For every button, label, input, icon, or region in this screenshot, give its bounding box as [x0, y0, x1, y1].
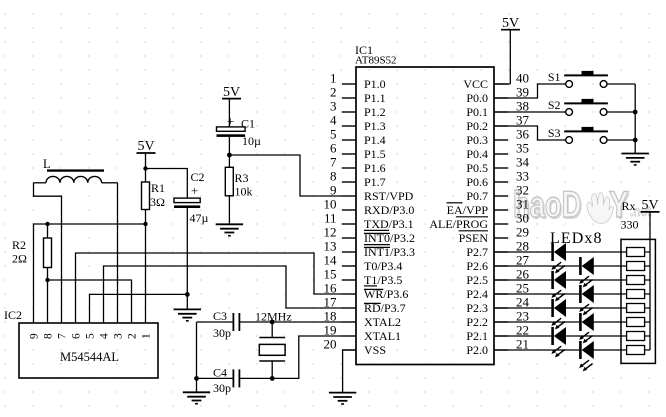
svg-text:ALE/PROG: ALE/PROG	[429, 217, 488, 231]
IC2 M54544AL body	[4, 308, 158, 378]
svg-text:P1.5: P1.5	[364, 147, 386, 161]
wire P0.0 pin39 to S1	[494, 84, 566, 98]
svg-text:T1/P3.5: T1/P3.5	[364, 273, 402, 287]
svg-text:18: 18	[324, 309, 337, 324]
svg-text:C2: C2	[191, 170, 205, 184]
svg-text:12: 12	[324, 225, 337, 240]
IC1 pin 21 (P2.0)	[466, 337, 529, 358]
svg-text:3: 3	[330, 99, 337, 114]
svg-text:+: +	[227, 114, 234, 129]
svg-text:5V: 5V	[502, 16, 519, 31]
IC1 pin 6 (P1.5)	[330, 141, 386, 162]
IC1 pin 7 (P1.6)	[330, 155, 386, 176]
svg-text:M54544AL: M54544AL	[60, 350, 119, 364]
svg-text:3: 3	[112, 333, 124, 339]
svg-text:+: +	[191, 183, 198, 198]
svg-text:1: 1	[330, 71, 337, 86]
svg-text:25: 25	[516, 281, 529, 296]
resistor Rx element 4	[627, 290, 650, 299]
svg-text:P0.4: P0.4	[466, 147, 488, 161]
IC1 pin 11 (TXD/P3.1)	[324, 211, 414, 232]
wire LED D2 to resistor network	[594, 265, 627, 267]
svg-text:VSS: VSS	[364, 343, 386, 357]
IC1 pin 23 (P2.2)	[466, 309, 529, 330]
svg-text:P1.1: P1.1	[364, 91, 386, 105]
IC1 pin 4 (P1.3)	[330, 113, 386, 134]
wire XTAL2 pin18 row	[239, 321, 342, 323]
svg-text:5V: 5V	[137, 139, 154, 154]
IC1 pin 24 (P2.3)	[466, 295, 529, 316]
svg-text:P2.7: P2.7	[466, 245, 488, 259]
svg-text:AT89S52: AT89S52	[355, 55, 397, 67]
svg-text:RXD/P3.0: RXD/P3.0	[364, 203, 414, 217]
svg-text:22: 22	[516, 323, 529, 338]
svg-text:1: 1	[140, 333, 152, 339]
LED D5	[551, 299, 566, 329]
pin label overlines (EA, PROG, PSEN)	[447, 203, 489, 231]
wire S2 to ground bus	[607, 111, 635, 113]
wire 5V to VCC pin 40	[494, 30, 510, 84]
svg-text:LEDx8: LEDx8	[550, 230, 603, 247]
svg-text:31: 31	[516, 197, 529, 212]
svg-text:R2: R2	[12, 238, 26, 252]
resistor R3 10k	[225, 155, 252, 224]
wire P2.6 pin27 to LED	[494, 265, 579, 267]
resistor Rx element 7	[627, 332, 650, 341]
IC1 pin 19 (XTAL1)	[324, 323, 402, 344]
svg-text:VCC: VCC	[463, 77, 488, 91]
svg-text:9: 9	[330, 183, 337, 198]
IC1 pin 31 (EA/VPP)	[447, 197, 529, 218]
wire LED D7 to resistor network	[566, 335, 627, 337]
svg-text:30p: 30p	[213, 381, 231, 395]
ground (C2 / IC2 pin5)	[174, 309, 201, 320]
wire P2.4 pin25 to LED	[494, 293, 579, 295]
wire LED D3 to resistor network	[566, 279, 627, 281]
svg-text:28: 28	[516, 239, 529, 254]
svg-text:L: L	[43, 157, 51, 171]
capacitor C3 30p	[197, 309, 240, 340]
svg-text:15: 15	[324, 267, 337, 282]
svg-text:Rx: Rx	[622, 199, 636, 213]
svg-text:7: 7	[330, 155, 337, 170]
svg-text:4: 4	[330, 113, 337, 128]
wire IC2 pin 5 to ground node	[90, 294, 188, 323]
svg-text:8: 8	[42, 333, 54, 339]
svg-text:S3: S3	[548, 126, 561, 140]
IC1 pin 28 (P2.7)	[466, 239, 529, 260]
svg-text:P2.6: P2.6	[466, 259, 488, 273]
svg-text:P2.3: P2.3	[466, 301, 488, 315]
IC1 pin 9 (RST/VPD)	[330, 183, 414, 204]
svg-text:C3: C3	[213, 309, 227, 323]
svg-text:34: 34	[516, 155, 530, 170]
resistor R1 3ohm	[142, 181, 166, 224]
svg-text:5: 5	[330, 127, 337, 142]
IC1 pin 26 (P2.5)	[466, 267, 529, 288]
microcontroller IC1 AT89S52 body	[355, 43, 494, 365]
svg-text:27: 27	[516, 253, 530, 268]
svg-text:XTAL2: XTAL2	[364, 315, 401, 329]
wire LED D5 to resistor network	[566, 307, 627, 309]
svg-text:T0/P3.4: T0/P3.4	[364, 259, 402, 273]
svg-text:5V: 5V	[641, 198, 658, 213]
IC1 pin 2 (P1.1)	[330, 85, 386, 106]
IC1 pin 37 (P0.2)	[466, 113, 529, 134]
wire S3 to ground bus	[607, 139, 635, 141]
IC2 pin numbers (rotated)	[28, 333, 152, 339]
wire LED D4 to resistor network	[594, 293, 627, 295]
ground (VSS)	[329, 393, 356, 404]
node C2/gnd/IC2-pin5	[185, 292, 190, 297]
inductor L	[34, 157, 118, 183]
wire C3 left down to C4	[196, 322, 198, 378]
svg-text:8: 8	[330, 169, 337, 184]
IC1 pin 16 (WR/P3.6)	[324, 281, 409, 302]
node wire y=224 (L/R1/R2/IC2 pin 9)	[34, 224, 146, 323]
svg-text:P0.1: P0.1	[466, 105, 488, 119]
node C1/R3/RST	[227, 153, 232, 158]
svg-text:IC2: IC2	[4, 308, 22, 322]
svg-text:PSEN: PSEN	[459, 231, 489, 245]
IC1 pin 12 (INT0/P3.2)	[324, 225, 416, 246]
svg-text:23: 23	[516, 309, 529, 324]
IC1 pin 36 (P0.3)	[466, 127, 529, 148]
svg-text:EA/VPP: EA/VPP	[447, 203, 489, 217]
switch S2 pushbutton	[548, 98, 608, 116]
wire 5V to R1, branch node to C2	[145, 153, 147, 182]
wire VSS pin20 to ground	[343, 350, 356, 393]
svg-text:P1.6: P1.6	[364, 161, 386, 175]
switch S1 pushbutton	[548, 70, 608, 88]
svg-text:14: 14	[324, 253, 338, 268]
svg-text:P0.5: P0.5	[466, 161, 488, 175]
resistor Rx element 5	[627, 304, 650, 313]
crystal Y1 12MHz	[255, 310, 292, 379]
IC1 pin 18 (XTAL2)	[324, 309, 402, 330]
5V supply (Rx)	[641, 198, 660, 213]
LED D7	[551, 327, 566, 357]
wire C4/crystal to XTAL1 pin19	[239, 336, 342, 378]
svg-text:P0.6: P0.6	[466, 175, 488, 189]
svg-text:XTAL1: XTAL1	[364, 329, 401, 343]
capacitor C1 10u electrolytic	[217, 114, 262, 149]
svg-text:6: 6	[70, 333, 82, 339]
svg-text:RST/VPD: RST/VPD	[364, 189, 414, 203]
node crystal top	[270, 320, 275, 325]
IC1 pin 38 (P0.1)	[466, 99, 529, 120]
ground (switches)	[622, 154, 649, 165]
svg-text:39: 39	[516, 85, 529, 100]
LED D2	[579, 257, 594, 287]
resistor Rx element 1	[627, 248, 650, 257]
svg-text:26: 26	[516, 267, 530, 282]
pin label overlines (INT0, INT1, WR, RD) and TXD underline	[364, 230, 390, 303]
svg-text:P1.2: P1.2	[364, 105, 386, 119]
IC1 pin 3 (P1.2)	[330, 99, 386, 120]
IC1 pin 20 (VSS)	[324, 337, 387, 358]
node C4 left / ground	[194, 376, 199, 381]
wire IC2 pin 4 to IC1 pin 17 (RD/P3.7)	[104, 266, 343, 323]
svg-text:20: 20	[324, 337, 337, 352]
svg-text:P2.0: P2.0	[466, 343, 488, 357]
IC1 pin 14 (T0/P3.4)	[324, 253, 403, 274]
svg-text:24: 24	[516, 295, 530, 310]
wire LED D6 to resistor network	[594, 321, 627, 323]
switch S3 pushbutton	[548, 126, 608, 144]
LED D6	[579, 313, 594, 343]
ground (C3/C4)	[183, 392, 210, 403]
IC1 pin 34 (P0.5)	[466, 155, 529, 176]
svg-text:P0.3: P0.3	[466, 133, 488, 147]
wire node to C2 top	[146, 169, 188, 199]
wire P2.5 pin26 to LED	[494, 279, 551, 281]
svg-text:10k: 10k	[235, 185, 253, 199]
5V supply (VCC)	[501, 16, 520, 31]
resistor Rx element 6	[627, 318, 650, 327]
IC1 pin 33 (P0.6)	[466, 169, 529, 190]
ground bus for switches	[634, 84, 636, 154]
IC1 pin 15 (T1/P3.5)	[324, 267, 403, 288]
svg-text:10µ: 10µ	[242, 134, 261, 148]
IC1 pin 29 (PSEN)	[459, 225, 529, 246]
svg-text:S2: S2	[548, 98, 561, 112]
svg-text:P2.4: P2.4	[466, 287, 488, 301]
svg-text:P1.3: P1.3	[364, 119, 386, 133]
5V supply (R1)	[137, 139, 156, 154]
node crystal bottom	[270, 376, 275, 381]
svg-text:2Ω: 2Ω	[12, 252, 27, 266]
svg-text:P0.7: P0.7	[466, 189, 488, 203]
svg-text:9: 9	[28, 333, 40, 339]
wire R2 bottom to IC2 pin 2	[48, 280, 132, 323]
svg-text:P1.0: P1.0	[364, 77, 386, 91]
svg-text:33: 33	[516, 169, 529, 184]
IC1 pin 10 (RXD/P3.0)	[324, 197, 415, 218]
wire L right lead down to IC2 pin 3	[117, 183, 119, 323]
svg-text:5: 5	[84, 333, 96, 339]
capacitor C2 47u electrolytic	[174, 170, 209, 225]
IC1 pin 5 (P1.4)	[330, 127, 386, 148]
svg-text:17: 17	[324, 295, 338, 310]
wire P2.7 pin28 to LED	[494, 251, 551, 253]
wire P2.1 pin22 to LED	[494, 335, 551, 337]
wire P0.1 pin38 to S2	[494, 111, 566, 113]
watermark haoDY.net	[513, 184, 652, 228]
svg-text:P0.2: P0.2	[466, 119, 488, 133]
svg-text:30p: 30p	[213, 326, 231, 340]
resistor Rx element 3	[627, 276, 650, 285]
wire S1 to ground bus	[607, 83, 635, 85]
svg-text:32: 32	[516, 183, 529, 198]
wire LED D8 to resistor network	[594, 349, 627, 351]
svg-text:30: 30	[516, 211, 529, 226]
IC1 pin 25 (P2.4)	[466, 281, 529, 302]
svg-text:P2.1: P2.1	[466, 329, 488, 343]
IC1 pin 40 (VCC)	[463, 71, 529, 92]
wire L left lead step down to IC2 pin 7	[34, 183, 62, 323]
IC1 pin 30 (ALE/PROG)	[429, 211, 529, 232]
svg-text:29: 29	[516, 225, 529, 240]
svg-text:R1: R1	[151, 181, 165, 195]
svg-text:47µ: 47µ	[190, 211, 209, 225]
5V bus of resistor network	[649, 212, 651, 350]
wire P2.0 pin21 to LED	[494, 349, 579, 351]
wire P2.3 pin24 to LED	[494, 307, 551, 309]
svg-text:13: 13	[324, 239, 337, 254]
IC1 pin 22 (P2.1)	[466, 323, 529, 344]
IC1 pin 13 (INT1/P3.3)	[324, 239, 416, 260]
wire IC2 pin 6 to IC1 pin 16 (WR/P3.6)	[76, 253, 343, 323]
svg-text:P1.7: P1.7	[364, 175, 386, 189]
svg-text:P2.2: P2.2	[466, 315, 488, 329]
LED D3	[551, 271, 566, 301]
wire 5V to C1	[228, 99, 230, 127]
svg-text:C4: C4	[213, 366, 227, 380]
svg-text:37: 37	[516, 113, 530, 128]
svg-text:P2.5: P2.5	[466, 273, 488, 287]
resistor Rx element 2	[627, 262, 650, 271]
LED D8	[579, 341, 594, 371]
svg-text:16: 16	[324, 281, 338, 296]
svg-text:R3: R3	[235, 171, 249, 185]
svg-text:6: 6	[330, 141, 337, 156]
svg-text:2: 2	[330, 85, 337, 100]
IC1 pin 1 (P1.0)	[330, 71, 386, 92]
svg-text:35: 35	[516, 141, 529, 156]
svg-text:330: 330	[621, 218, 639, 232]
wire R1 bottom / IC2 pin 1	[145, 224, 147, 323]
svg-text:C1: C1	[241, 117, 255, 131]
LED D4	[579, 285, 594, 315]
label Rx 330	[621, 199, 639, 232]
svg-text:21: 21	[516, 337, 529, 352]
capacitor C4 30p	[197, 366, 240, 396]
svg-text:3Ω: 3Ω	[150, 195, 165, 209]
wire C1 to node	[228, 137, 230, 155]
svg-text:19: 19	[324, 323, 337, 338]
svg-text:38: 38	[516, 99, 529, 114]
svg-text:10: 10	[324, 197, 337, 212]
svg-text:12MHz: 12MHz	[255, 310, 292, 324]
node R2 bottom / IC2 pin 8 / pin 2 wire	[45, 278, 49, 282]
5V supply (C1)	[222, 85, 241, 100]
IC1 pin 35 (P0.4)	[466, 141, 529, 162]
IC1 pin 17 (RD/P3.7)	[324, 295, 406, 316]
svg-text:5V: 5V	[223, 85, 240, 100]
IC1 pin 8 (P1.7)	[330, 169, 386, 190]
resistor R2 2ohm	[12, 224, 52, 280]
svg-text:TXD/P3.1: TXD/P3.1	[364, 217, 414, 231]
wire node to RST/VPD pin 9	[229, 155, 342, 196]
svg-text:S1: S1	[548, 70, 561, 84]
svg-text:40: 40	[516, 71, 529, 86]
wire C2 bottom down to ground node	[186, 208, 188, 294]
IC1 pin 39 (P0.0)	[466, 85, 529, 106]
svg-text:11: 11	[324, 211, 337, 226]
LED D1	[551, 243, 566, 273]
resistor network Rx 330 (8 elements)	[621, 239, 655, 363]
wire IC2 pin 8 stub	[47, 280, 49, 323]
svg-text:4: 4	[98, 333, 110, 339]
resistor Rx element 8	[627, 346, 650, 355]
IC1 pin 32 (P0.7)	[466, 183, 529, 204]
svg-text:7: 7	[56, 333, 68, 339]
svg-text:P0.0: P0.0	[466, 91, 488, 105]
svg-text:P1.4: P1.4	[364, 133, 386, 147]
svg-text:36: 36	[516, 127, 530, 142]
IC1 pin 27 (P2.6)	[466, 253, 529, 274]
wire P0.2 pin37 to S3	[494, 126, 566, 140]
ground (R3)	[216, 224, 243, 235]
wire P2.2 pin23 to LED	[494, 321, 579, 323]
wire LED D1 to resistor network	[566, 251, 627, 253]
svg-text:2: 2	[126, 333, 138, 339]
